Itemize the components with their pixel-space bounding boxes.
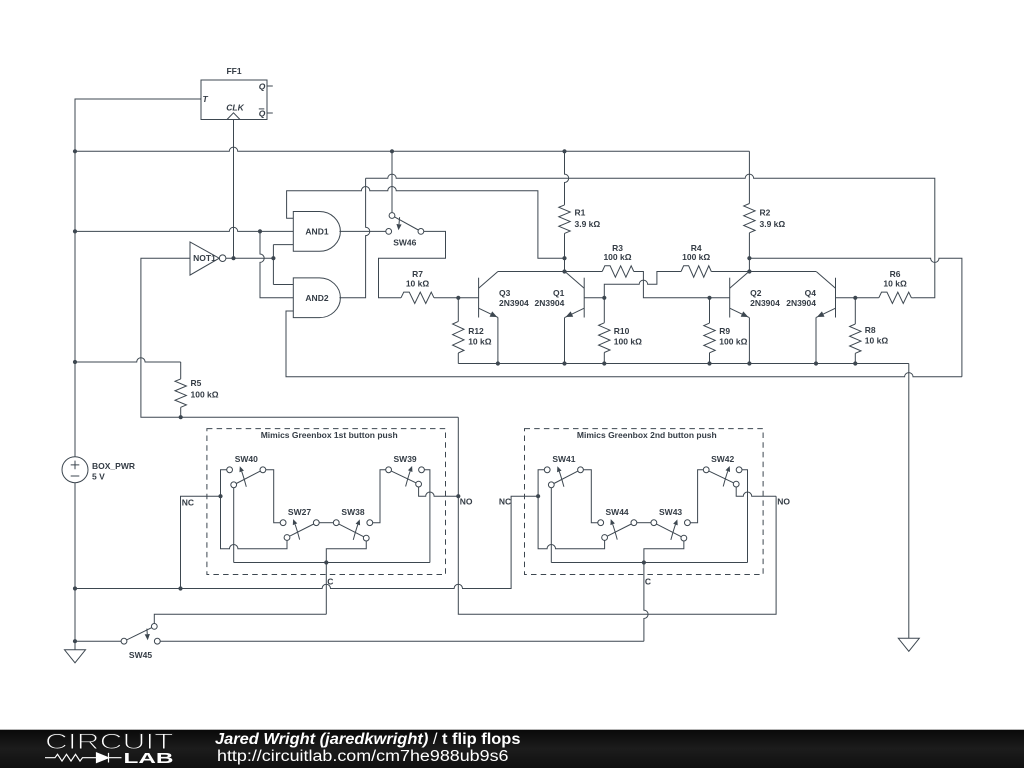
- voltage source BOX_PWR: [62, 457, 88, 483]
- svg-text:AND2: AND2: [305, 293, 328, 303]
- svg-text:100 kΩ: 100 kΩ: [614, 337, 642, 347]
- resistor R9: [704, 323, 715, 353]
- wire greenbox2 C drop: [644, 563, 648, 642]
- switch SW42: [703, 466, 742, 487]
- svg-text:Q1: Q1: [553, 288, 565, 298]
- wire SW41 to SW44: [583, 470, 597, 523]
- wire left rail lower: [74, 483, 76, 650]
- wire R10 bottom: [603, 353, 605, 364]
- junction rail-Q1e: [562, 361, 566, 365]
- svg-text:http://circuitlab.com/cm7he988: http://circuitlab.com/cm7he988ub9s6: [217, 748, 509, 765]
- wire R9 top: [709, 298, 711, 323]
- junction rail1-R1: [562, 149, 566, 153]
- svg-text:Q: Q: [259, 82, 266, 92]
- svg-text:100 kΩ: 100 kΩ: [603, 252, 631, 262]
- wire SW43 to SW42: [690, 470, 703, 523]
- svg-text:NOT1: NOT1: [193, 253, 216, 263]
- wire SW40 pole down: [233, 488, 235, 563]
- junction C2: [642, 560, 646, 564]
- svg-text:R2: R2: [760, 208, 771, 218]
- wire R4 right lead: [711, 271, 749, 273]
- svg-text:FF1: FF1: [226, 66, 241, 76]
- svg-text:2N3904: 2N3904: [499, 298, 529, 308]
- wire emitter rail: [458, 363, 909, 365]
- ground left: [65, 650, 86, 663]
- wire SW38 to SW39: [373, 470, 386, 523]
- wire FF1 CLK to NOT1 output node: [233, 120, 235, 259]
- wire SW46 top to rail1: [391, 151, 393, 212]
- junction rail-R9: [707, 361, 711, 365]
- wire SW43 pole down: [644, 541, 684, 563]
- junction rail-rail2: [73, 229, 77, 233]
- junction C1: [324, 560, 328, 564]
- wire NO1: [419, 487, 459, 496]
- junction Q1-Q3 collector node: [562, 269, 566, 273]
- svg-text:C: C: [327, 576, 333, 586]
- wire rail to right ground: [908, 364, 910, 639]
- wire R8 bottom: [854, 353, 856, 363]
- CircuitLab logo doodle resistor-diode: [45, 753, 122, 763]
- junction rail-Q2e: [747, 361, 751, 365]
- switch SW27: [280, 519, 319, 540]
- resistor R4: [681, 266, 711, 277]
- flip-flop FF1 body: [201, 80, 267, 120]
- wire R9 bottom: [709, 353, 711, 364]
- transistor Q1: [565, 272, 584, 318]
- svg-text:2N3904: 2N3904: [750, 298, 780, 308]
- wire R1 bottom: [564, 233, 566, 271]
- wire rail1 V+: [75, 147, 749, 151]
- wire SW44 to SW43: [637, 522, 651, 524]
- wire R3 left lead: [565, 271, 603, 273]
- junction rail-R5 row: [73, 360, 77, 364]
- wire Q1 emitter: [564, 317, 566, 363]
- svg-text:SW44: SW44: [606, 507, 629, 517]
- wire SW39 to bottom line: [424, 470, 430, 563]
- wire feedback right riser: [749, 258, 962, 377]
- svg-text:SW45: SW45: [129, 650, 152, 660]
- inverter NOT1: [190, 242, 226, 275]
- junction rail-SW45: [73, 639, 77, 643]
- wire rail to SW45: [75, 640, 121, 642]
- switch SW40: [227, 466, 266, 487]
- junction CLK-NOT1 out: [231, 256, 235, 260]
- svg-text:SW27: SW27: [288, 507, 311, 517]
- svg-text:BOX_PWR: BOX_PWR: [92, 461, 135, 471]
- switch SW45: [121, 624, 160, 645]
- svg-text:100 kΩ: 100 kΩ: [191, 390, 219, 400]
- junction rail1-SW46: [390, 149, 394, 153]
- junction Q1 base-R10: [602, 296, 606, 300]
- wire R12 bottom to rail: [457, 353, 459, 364]
- wire rail to R5: [75, 358, 181, 362]
- greenbox 2 border: [525, 429, 764, 575]
- wire NC1 to SW40: [221, 470, 288, 549]
- switch SW38: [333, 519, 372, 541]
- svg-text:R1: R1: [575, 208, 586, 218]
- resistor R7: [401, 292, 434, 303]
- switch SW46: [386, 213, 424, 235]
- wire SW45 throw1 to greenbox1 C: [154, 614, 326, 623]
- svg-text:3.9 kΩ: 3.9 kΩ: [760, 219, 786, 229]
- svg-text:AND1: AND1: [305, 226, 328, 236]
- transistor Q2: [730, 272, 749, 318]
- svg-text:LAB: LAB: [124, 750, 174, 767]
- junction NOT1 out branch: [271, 256, 275, 260]
- wire R10 top: [603, 298, 605, 323]
- svg-text:Q: Q: [259, 108, 266, 118]
- wire AND2 output top run to R6: [366, 174, 935, 298]
- AND gate AND2: [293, 278, 340, 318]
- wire AND1 input3 from NOT1: [273, 244, 293, 246]
- svg-text:SW43: SW43: [659, 507, 682, 517]
- switch SW43: [651, 519, 690, 541]
- svg-text:10 kΩ: 10 kΩ: [883, 278, 907, 288]
- svg-text:R8: R8: [865, 325, 876, 335]
- resistor R8: [850, 324, 861, 353]
- AND gate AND1: [293, 212, 340, 252]
- svg-text:R9: R9: [719, 326, 730, 336]
- svg-text:SW42: SW42: [711, 454, 734, 464]
- wire Q4 collector run: [749, 271, 816, 273]
- wire AND2 input3 feedback: [286, 311, 962, 377]
- FF1 Qbar output stub: [267, 112, 273, 114]
- wire SW27 to SW38: [319, 522, 333, 524]
- wire R12 top: [457, 298, 459, 322]
- wire greenbox1 C drop: [325, 563, 327, 615]
- switch SW39: [386, 466, 425, 487]
- svg-text:Mimics Greenbox 1st button pus: Mimics Greenbox 1st button push: [261, 430, 398, 440]
- svg-text:Jared Wright (jaredkwright) /: Jared Wright (jaredkwright) / t flip flo…: [215, 731, 521, 748]
- junction R7-R12-Q3 base: [456, 296, 460, 300]
- junction rail-Q4e: [814, 361, 818, 365]
- wire AND1 output to SW46: [339, 230, 385, 232]
- wire Q4 emitter: [815, 317, 817, 363]
- svg-text:NC: NC: [499, 497, 511, 507]
- svg-text:100 kΩ: 100 kΩ: [719, 337, 747, 347]
- wire rail1 to R2: [748, 151, 750, 203]
- wire SW42 to bottom line: [742, 470, 748, 563]
- junction Q4 base-R8: [853, 296, 857, 300]
- greenbox 1 border: [207, 429, 446, 575]
- svg-text:10 kΩ: 10 kΩ: [406, 278, 430, 288]
- junction R1 bottom feedback: [562, 256, 566, 260]
- wire Q3 emitter: [497, 317, 499, 363]
- svg-text:NO: NO: [777, 497, 790, 507]
- junction Q2-Q4 collector node: [747, 269, 751, 273]
- svg-text:2N3904: 2N3904: [786, 298, 816, 308]
- svg-text:C: C: [645, 576, 651, 586]
- svg-text:5 V: 5 V: [92, 471, 105, 481]
- svg-text:CLK: CLK: [226, 102, 244, 112]
- svg-text:SW39: SW39: [394, 454, 417, 464]
- wire AND2 input2 from rail2: [260, 231, 293, 297]
- wire R7 to Q3 base: [434, 297, 479, 299]
- resistor R2: [744, 204, 755, 233]
- svg-text:NO: NO: [460, 497, 473, 507]
- svg-text:SW38: SW38: [341, 507, 364, 517]
- junction R9-Q2 base: [707, 296, 711, 300]
- wire SW40 to SW27: [266, 470, 280, 523]
- junction rail-R10: [602, 361, 606, 365]
- resistor R10: [599, 323, 610, 353]
- junction rail-Q3e: [496, 361, 500, 365]
- wire SW46 to R7: [379, 231, 446, 297]
- wire Q3 collector run: [498, 271, 565, 273]
- svg-text:SW40: SW40: [235, 454, 258, 464]
- wire T input: [75, 99, 201, 457]
- svg-text:R5: R5: [191, 378, 202, 388]
- wire NC2 to SW41: [538, 470, 605, 549]
- junction R2 bottom feedback: [747, 256, 751, 260]
- svg-text:Q2: Q2: [750, 288, 762, 298]
- svg-text:T: T: [203, 94, 209, 104]
- switch SW44: [598, 519, 637, 540]
- transistor Q4: [816, 272, 835, 318]
- svg-text:3.9 kΩ: 3.9 kΩ: [575, 219, 601, 229]
- wire rail2 to AND1: [75, 227, 293, 231]
- footer bar: [0, 730, 1024, 768]
- wire Q1 base: [584, 297, 604, 299]
- transistor Q3: [479, 272, 498, 318]
- junction rail2-AND2 branch: [258, 229, 262, 233]
- wire ground spur: [75, 496, 538, 588]
- wire NOT1 branch vertical: [272, 245, 274, 285]
- wire AND2 output up: [339, 178, 369, 297]
- wire SW38 pole down: [326, 541, 366, 563]
- wire Q2 emitter: [748, 317, 750, 363]
- wire NOT1 input: [141, 258, 190, 417]
- FF1 Q output stub: [267, 85, 273, 87]
- junction rail-ground spur: [73, 586, 77, 590]
- svg-text:SW46: SW46: [393, 238, 416, 248]
- junction NO1: [456, 494, 460, 498]
- wire NOT1 output: [226, 257, 274, 259]
- wire R5 node to NO vertical: [181, 416, 459, 418]
- resistor R3: [602, 266, 634, 277]
- resistor R12: [453, 321, 464, 353]
- junction rail-rail1: [73, 149, 77, 153]
- wire bottom line box1: [234, 562, 430, 564]
- wire Q4 base: [836, 297, 879, 299]
- svg-text:Mimics Greenbox 2nd button pus: Mimics Greenbox 2nd button push: [577, 430, 717, 440]
- svg-text:R10: R10: [614, 326, 630, 336]
- junction NC1: [218, 494, 222, 498]
- wire bottom line box2: [551, 562, 747, 564]
- svg-text:10 kΩ: 10 kΩ: [865, 336, 889, 346]
- wire NC1 lead: [181, 496, 221, 588]
- resistor R5: [180, 362, 182, 379]
- svg-text:R12: R12: [468, 326, 484, 336]
- svg-text:Q3: Q3: [499, 288, 511, 298]
- wire AND2 input1 from NOT1: [273, 284, 293, 286]
- resistor R1: [559, 205, 570, 234]
- wire NO2: [736, 487, 776, 496]
- resistor R6: [879, 292, 912, 303]
- wire Q1 base jog to R4: [604, 272, 681, 298]
- junction NC2: [536, 494, 540, 498]
- junction spur-NC1: [178, 586, 182, 590]
- wire R1 top: [565, 151, 569, 205]
- junction rail-R8: [853, 361, 857, 365]
- svg-text:SW41: SW41: [552, 454, 575, 464]
- svg-text:10 kΩ: 10 kΩ: [468, 337, 492, 347]
- svg-text:100 kΩ: 100 kΩ: [682, 252, 710, 262]
- svg-text:NC: NC: [182, 497, 194, 507]
- wire NO vertical: [458, 417, 776, 614]
- ground right: [898, 638, 919, 651]
- switch SW41: [544, 466, 583, 487]
- wire R6 right lead: [911, 297, 914, 299]
- svg-text:Q4: Q4: [805, 288, 817, 298]
- FF1 CLK edge caret: [227, 113, 240, 120]
- wire SW41 pole down: [550, 488, 552, 563]
- wire R2 bottom: [748, 233, 750, 272]
- svg-text:2N3904: 2N3904: [535, 298, 565, 308]
- wire AND1 input1 from Q1 collector node: [287, 187, 565, 259]
- wire R8 top: [854, 298, 856, 324]
- wire R3 to Q2 base: [634, 272, 730, 298]
- junction R5 bottom: [179, 415, 183, 419]
- wire SW45 throw2 to greenbox2 C: [160, 640, 644, 642]
